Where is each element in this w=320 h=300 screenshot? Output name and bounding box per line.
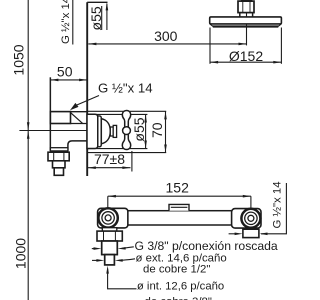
shower head disc xyxy=(210,17,282,24)
dimension 1050 arrow down xyxy=(27,122,30,130)
valve bell dome xyxy=(101,119,110,144)
svg-text:ø int. 12,6 p/caño: ø int. 12,6 p/caño xyxy=(137,281,224,293)
svg-text:G ½"x 14: G ½"x 14 xyxy=(60,0,72,44)
compression hex nut (valve) xyxy=(48,152,69,161)
elbow bottom collar xyxy=(50,148,68,151)
riser top cap line xyxy=(87,1,107,3)
svg-text:1050: 1050 xyxy=(10,44,26,75)
short arrow to right outlet from left xyxy=(229,233,235,235)
valve inlet top line xyxy=(71,111,88,113)
supply elbow left edge with 50-dim extension xyxy=(49,77,51,151)
o-ext left arrow xyxy=(92,259,98,261)
bar right boss mid ring xyxy=(245,212,257,224)
valve o55 dimension line xyxy=(145,114,147,148)
hex nut facets (valve) xyxy=(54,152,64,160)
dimension D152 right extension xyxy=(280,28,282,64)
bar tube xyxy=(128,211,232,225)
union nut xyxy=(50,112,70,124)
valve flange collar ring xyxy=(98,116,102,147)
shower head nut facets xyxy=(243,1,250,12)
bar left hex nut xyxy=(97,231,122,241)
bar left end body xyxy=(98,208,128,228)
svg-text:de cobre 1/2": de cobre 1/2" xyxy=(143,264,210,276)
valve axis extension line xyxy=(19,130,91,132)
dimension D152 line xyxy=(210,61,281,63)
compression block (valve) xyxy=(53,161,66,168)
dimension 300 left arrow xyxy=(88,43,96,46)
dimension 77+-8 line xyxy=(88,167,131,169)
o-ext right leader xyxy=(119,259,135,261)
bar left boss outer ring xyxy=(98,208,117,227)
bar left hex nut facets xyxy=(104,231,116,241)
valve thread leader arrow xyxy=(70,103,79,110)
dimension 300 right arrow xyxy=(239,43,247,46)
valve cross handle xyxy=(122,110,130,149)
shower head neck xyxy=(240,13,253,17)
svg-text:ø55: ø55 xyxy=(131,117,147,141)
dimension o55 top: arrow xyxy=(106,2,109,10)
G3/8 left arrow xyxy=(92,248,95,250)
valve o55 bottom extension line xyxy=(87,148,147,150)
dimension o55 top: line xyxy=(106,4,108,30)
svg-text:G 3/8" p/conexión roscada: G 3/8" p/conexión roscada xyxy=(135,239,278,253)
valve thread leader xyxy=(75,96,99,106)
bar right boss inner circle xyxy=(248,215,254,221)
valve 70 arrows xyxy=(164,111,167,152)
svg-text:70: 70 xyxy=(149,122,165,138)
svg-text:50: 50 xyxy=(57,63,73,79)
bar dimension 152 arrows xyxy=(108,195,251,198)
dimension o55 top: underline xyxy=(101,6,103,30)
svg-text:77±8: 77±8 xyxy=(94,151,125,167)
bar left G3/8 block xyxy=(102,241,118,255)
shower head face bevel left xyxy=(210,24,213,26)
bar center bracket inner line xyxy=(171,206,188,208)
valve o55 arrows xyxy=(144,115,147,149)
shower head nut top cap xyxy=(241,0,253,2)
union cone diagonal xyxy=(71,113,83,124)
o-int bottom leader xyxy=(108,269,137,289)
shower head face band xyxy=(213,25,278,27)
svg-text:1000: 1000 xyxy=(12,238,28,269)
label G 1/2 x 14 top-left underline xyxy=(72,0,74,45)
shower head centerline xyxy=(246,0,248,45)
svg-text:de cobre 3/8": de cobre 3/8" xyxy=(145,296,212,300)
svg-text:152: 152 xyxy=(166,180,190,196)
elbow body inner profile xyxy=(68,141,91,151)
svg-text:ø55: ø55 xyxy=(88,6,104,30)
bar 152 left extension into circle xyxy=(107,196,109,218)
dimension 1050/1000 vertical line xyxy=(27,0,29,300)
valve neck ring xyxy=(110,127,113,136)
dimension D152 left extension xyxy=(209,28,211,64)
o-int up arrow xyxy=(106,266,109,274)
dimension 77+-8 right extension xyxy=(131,151,133,172)
valve o55 top extension line xyxy=(87,113,147,115)
leader arrow to right outlet xyxy=(260,233,268,236)
svg-text:ø ext. 14,6 p/caño: ø ext. 14,6 p/caño xyxy=(136,253,227,265)
dimension 300 line xyxy=(88,43,246,45)
shower head face bevel right xyxy=(278,24,281,26)
bar left copper tail xyxy=(105,255,115,265)
bar right boss outer ring xyxy=(241,209,260,228)
copper tail (valve) xyxy=(54,168,63,176)
valve 70 dimension line xyxy=(165,111,167,152)
dimension D152 right arrow xyxy=(273,61,281,64)
valve 70-dim top extension line xyxy=(87,110,166,112)
wall/riser line xyxy=(86,2,88,176)
svg-text:G ½"x 14: G ½"x 14 xyxy=(98,81,153,96)
bar left boss inner circle xyxy=(105,215,111,221)
valve handle front boss xyxy=(123,127,131,135)
svg-text:Ø152: Ø152 xyxy=(229,48,263,64)
union cone bottom line xyxy=(71,123,88,125)
svg-text:300: 300 xyxy=(154,28,178,44)
svg-text:G ½"x 14: G ½"x 14 xyxy=(271,181,283,228)
dimension 1000 arrow up xyxy=(27,131,30,139)
shower head nut xyxy=(238,1,254,13)
dimension 50 left arrow xyxy=(50,79,58,82)
bar right end body xyxy=(232,209,261,229)
bar left boss mid ring xyxy=(102,212,114,224)
label G 1/2 x 14 bottom-right underline/leader xyxy=(261,183,286,234)
valve flange base xyxy=(87,114,98,148)
bar dimension 152 line xyxy=(108,195,251,197)
G3/8 right leader xyxy=(122,247,134,249)
dimension 50 line xyxy=(50,79,87,81)
bar center bracket bump xyxy=(169,204,189,210)
bar 152 right extension into circle xyxy=(250,196,252,218)
bar left collar xyxy=(102,228,117,231)
dimension 50 right arrow xyxy=(79,79,87,82)
dimension 77+-8 arrows xyxy=(88,166,131,169)
valve 70-dim bottom extension line xyxy=(87,152,166,154)
dimension D152 left arrow xyxy=(210,61,218,64)
bar right outlet block xyxy=(243,229,259,237)
valve handle hub xyxy=(113,125,116,137)
